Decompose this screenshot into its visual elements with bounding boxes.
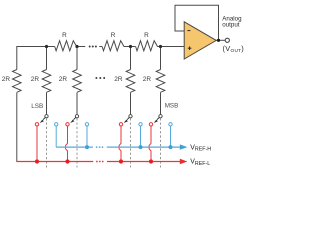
contact L4 (MSB) <box>149 123 152 126</box>
switch S3 <box>124 115 132 168</box>
wire: contact L2 to VREF-L bus with hop <box>66 126 68 162</box>
svg-text:LSB: LSB <box>31 103 43 110</box>
contact H3 <box>139 123 142 126</box>
bit leg 2 <box>59 47 82 115</box>
resistor 2R MSB <box>156 70 165 93</box>
node C dot <box>129 45 132 48</box>
resistor R3 <box>136 41 158 51</box>
wire: node3 to 2R <box>130 47 132 70</box>
output terminal circle <box>225 38 229 42</box>
wire: 2R to switch pole <box>160 93 162 115</box>
contact H1 (VREF-H, LSB) <box>55 123 58 126</box>
wire: top rail left segment <box>17 47 55 70</box>
VREF-H bus dots <box>96 146 104 148</box>
junction dot L1 <box>35 159 39 163</box>
op-amp plus sign <box>188 46 192 50</box>
contact L1 (VREF-L, LSB) <box>35 123 38 126</box>
resistor 2R terminator <box>12 70 21 93</box>
contact H4 (MSB) <box>169 123 172 126</box>
resistor 2R LSB <box>42 70 51 93</box>
node A dot <box>45 45 48 48</box>
VREF-L bus right part <box>107 161 180 163</box>
bit leg LSB: wire, 2R, switch <box>31 47 51 115</box>
contact H2 <box>85 123 88 126</box>
svg-text:MSB: MSB <box>165 102 179 109</box>
wire: 2R to switch pole <box>46 93 48 115</box>
wire: node2 to 2R <box>76 47 78 70</box>
VREF-L bus left part <box>16 161 93 163</box>
output node dot <box>217 39 220 42</box>
VREF-H arrowhead <box>180 144 188 149</box>
svg-text:output: output <box>222 22 239 29</box>
svg-text:R: R <box>111 32 116 39</box>
switch S4 (MSB) <box>154 115 162 168</box>
wire: 2R to switch pole <box>76 93 78 115</box>
wire: node4 to 2R <box>160 47 162 70</box>
svg-text:(VOUT): (VOUT) <box>223 44 245 53</box>
VREF-L bus dots <box>96 161 104 163</box>
op-amp minus sign <box>187 30 190 32</box>
ladder continuation dots mid <box>95 77 105 79</box>
svg-text:R: R <box>144 32 149 39</box>
wire: rail node1-node2 <box>76 46 85 48</box>
resistor R2 <box>102 41 124 51</box>
VREF-H bus left part <box>56 146 93 148</box>
wire: terminator to VREF-L bus <box>16 93 18 162</box>
contact L3 <box>119 123 122 126</box>
svg-text:2R: 2R <box>31 76 40 83</box>
svg-text:2R: 2R <box>2 76 11 83</box>
wire: contact H2 to VREF-H bus <box>86 126 88 147</box>
wire: contact H4 to VREF-H bus <box>170 126 172 147</box>
wire: rail before R2 <box>99 46 102 48</box>
rail continuation dots <box>89 46 97 48</box>
wire: contact L1 to VREF-L bus <box>36 126 38 162</box>
svg-text:VREF-L: VREF-L <box>190 159 210 167</box>
wire: contact L4 to VREF-L bus with hop <box>149 126 151 162</box>
svg-text:2R: 2R <box>59 76 68 83</box>
junction dot L2 <box>65 159 69 163</box>
node D dot <box>159 45 162 48</box>
VREF-H bus right part <box>107 146 180 148</box>
resistor 2R bit2 <box>73 70 82 93</box>
VREF-L arrowhead <box>180 159 188 164</box>
wire: contact L3 to VREF-L bus with hop <box>119 126 121 162</box>
junction dot L3 <box>119 159 123 163</box>
junction dot H3 <box>139 145 143 149</box>
wire: rail node3 segment <box>124 46 136 48</box>
op-amp U1 feedback wire <box>175 5 219 40</box>
contact L2 <box>66 123 69 126</box>
wire: 2R to switch pole <box>130 93 132 115</box>
wire: contact H3 to VREF-H bus <box>140 126 142 147</box>
bit leg MSB <box>143 47 179 115</box>
svg-text:2R: 2R <box>143 76 152 83</box>
junction dot L4 <box>149 159 153 163</box>
resistor R1 <box>55 41 77 51</box>
svg-text:R: R <box>62 32 67 39</box>
op-amp U1 <box>184 22 216 59</box>
svg-text:2R: 2R <box>114 76 123 83</box>
junction dot H2 <box>85 145 89 149</box>
wire: node1 to 2R <box>46 47 48 70</box>
node B dot <box>75 45 78 48</box>
wire: rail to op-amp + input <box>157 46 184 48</box>
svg-text:VREF-H: VREF-H <box>190 144 211 152</box>
resistor 2R bit n-1 <box>126 70 135 93</box>
switch S2 <box>70 115 78 168</box>
switch S1 (LSB) <box>40 115 48 168</box>
wire: op-amp output <box>216 39 225 41</box>
junction dot H4 <box>169 145 173 149</box>
wire: contact H1 to VREF-H bus <box>55 126 57 147</box>
bit leg n-1 <box>114 47 135 115</box>
